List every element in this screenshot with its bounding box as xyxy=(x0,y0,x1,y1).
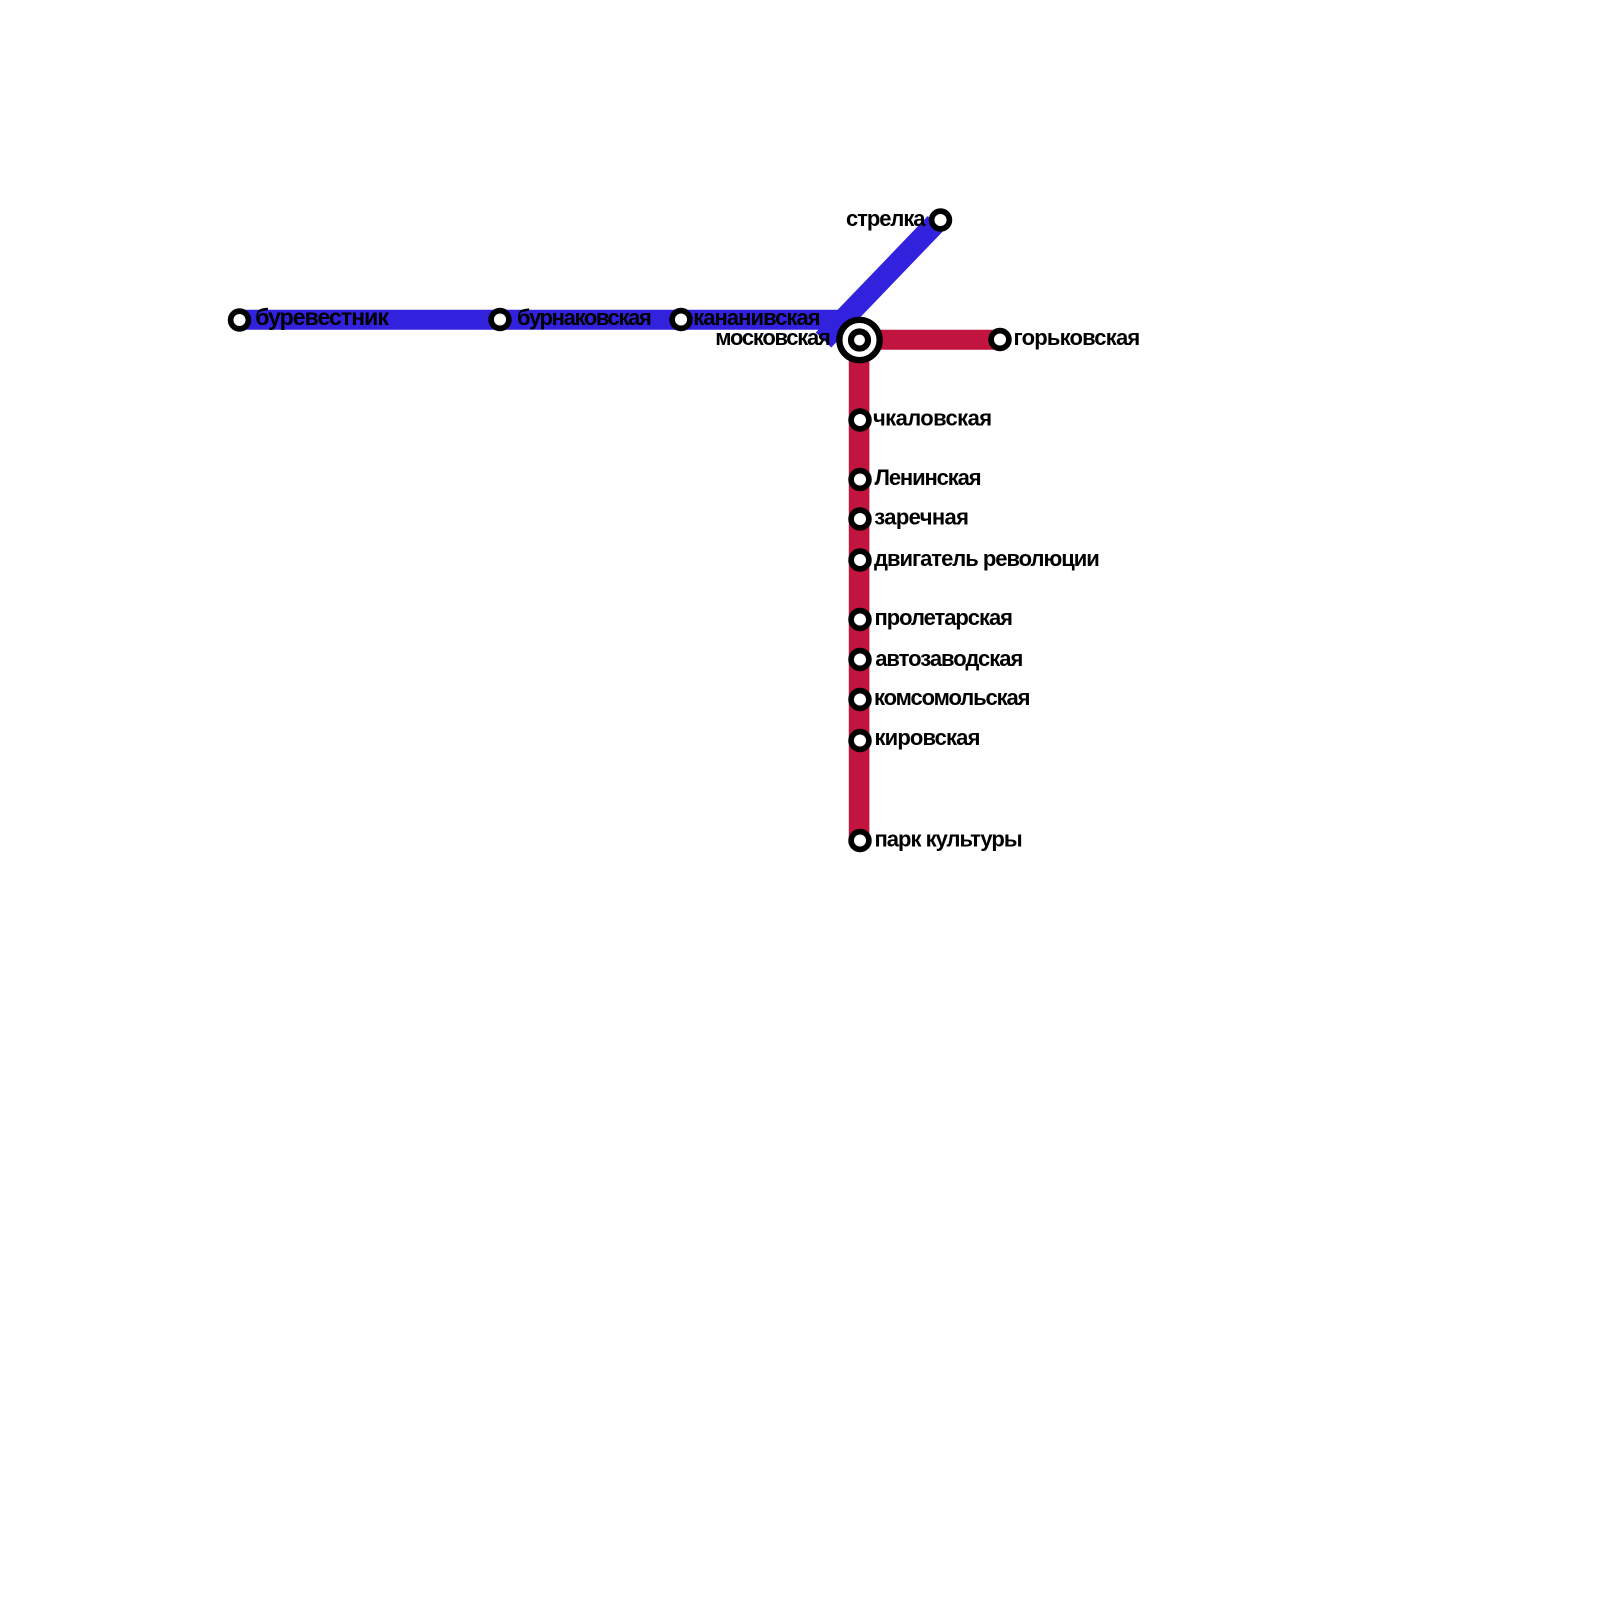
node пролетарская xyxy=(851,611,869,629)
svg-text:буревестник: буревестник xyxy=(255,304,389,330)
svg-text:бурнаковская: бурнаковская xyxy=(517,305,651,330)
svg-text:Ленинская: Ленинская xyxy=(875,465,981,490)
svg-text:автозаводская: автозаводская xyxy=(875,646,1022,671)
node стрелка xyxy=(932,211,950,229)
node заречная xyxy=(851,510,869,528)
node кировская xyxy=(851,732,869,750)
node чкаловская xyxy=(851,411,869,429)
node кананивская xyxy=(672,311,690,329)
node бурнаковская xyxy=(491,311,509,329)
svg-text:двигатель революции: двигатель революции xyxy=(874,546,1099,571)
node двигатель революции xyxy=(851,551,869,569)
svg-text:пролетарская: пролетарская xyxy=(875,605,1013,630)
wire red line horizontal (московская - горьковская) xyxy=(860,330,1001,350)
svg-text:комсомольская: комсомольская xyxy=(874,685,1030,710)
node парк культуры xyxy=(851,832,869,850)
svg-text:заречная: заречная xyxy=(874,505,968,530)
svg-text:горьковская: горьковская xyxy=(1014,325,1140,350)
svg-text:стрелка: стрелка xyxy=(846,206,926,231)
svg-text:парк культуры: парк культуры xyxy=(875,827,1022,852)
node автозаводская xyxy=(851,651,869,669)
node буревестник xyxy=(231,311,249,329)
wire blue line diagonal (московская - стрелка) xyxy=(824,224,936,341)
node московская interchange xyxy=(839,320,879,360)
wire red line vertical (московская - парк культуры) xyxy=(849,340,870,841)
svg-text:кировская: кировская xyxy=(875,725,980,750)
node комсомольская xyxy=(851,691,869,709)
wire blue line horizontal (буревестник - московская) xyxy=(239,310,852,330)
node Ленинская xyxy=(851,471,869,489)
svg-text:московская: московская xyxy=(715,325,830,350)
svg-text:чкаловская: чкаловская xyxy=(873,406,991,431)
node горьковская xyxy=(991,331,1009,349)
